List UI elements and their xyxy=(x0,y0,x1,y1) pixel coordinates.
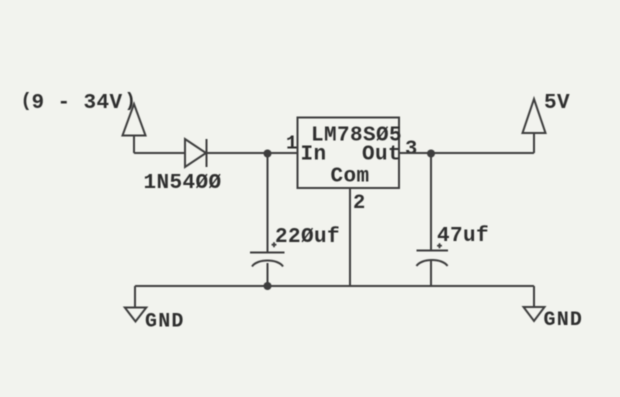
junction output node xyxy=(427,150,435,158)
right ground stem xyxy=(533,286,535,307)
svg-text:9 - 34V: 9 - 34V xyxy=(32,92,123,115)
capacitor C2 47uf xyxy=(417,250,449,252)
capacitor C1 220uf xyxy=(250,252,285,254)
svg-text:GND: GND xyxy=(145,311,185,334)
svg-text:(: ( xyxy=(21,90,32,112)
junction input node xyxy=(264,150,272,158)
svg-text:GND: GND xyxy=(544,309,584,332)
svg-text:In: In xyxy=(301,144,327,167)
svg-text:Out: Out xyxy=(362,144,401,167)
C2 plus mark xyxy=(437,243,442,248)
wire input node down to C1 xyxy=(267,153,269,252)
left ground symbol xyxy=(125,308,147,322)
pin 2 stem xyxy=(349,188,351,286)
svg-text:5V: 5V xyxy=(544,92,570,115)
svg-text:22Øuf: 22Øuf xyxy=(275,226,340,249)
wire output node down to C2 xyxy=(430,153,432,251)
diode D1 xyxy=(185,139,207,167)
svg-text:47uf: 47uf xyxy=(437,225,489,248)
svg-text:1N54ØØ: 1N54ØØ xyxy=(144,172,222,195)
ground rail xyxy=(135,285,534,287)
svg-text:2: 2 xyxy=(353,192,365,215)
IC U1 LM78S05 body xyxy=(298,118,400,189)
power arrow 5V xyxy=(523,99,546,153)
power arrow VIN xyxy=(123,104,146,153)
C1 plus mark xyxy=(272,242,277,247)
svg-text:): ) xyxy=(125,90,136,112)
junction C1 on rail xyxy=(264,282,272,290)
wire input to diode xyxy=(134,152,185,154)
svg-text:3: 3 xyxy=(405,138,417,161)
wire IC out to 5V xyxy=(399,152,534,154)
svg-text:Com: Com xyxy=(331,166,370,189)
left ground stem xyxy=(134,286,136,307)
wire diode to IC xyxy=(207,152,298,154)
svg-text:1: 1 xyxy=(286,133,297,155)
right ground symbol xyxy=(524,307,545,321)
